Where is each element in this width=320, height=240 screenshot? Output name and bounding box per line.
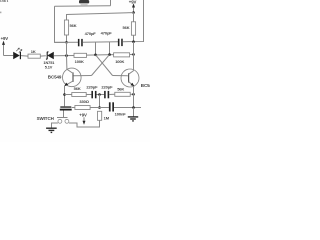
node junction dot (64.5,94.5) bbox=[63, 93, 66, 96]
cut-off text top-left corner bbox=[0, 0, 9, 3]
wire emitter dot to 56K-L bbox=[65, 94, 72, 96]
transistor Q1 BC549 (left) bbox=[63, 56, 82, 87]
wire y=42.5 from C2 to right corner, up right rail to top edge bbox=[123, 0, 144, 42]
svg-text:220pF: 220pF bbox=[86, 85, 98, 90]
capacitor C5 electrolytic (below Q1 emitter) bbox=[60, 106, 72, 110]
svg-text:1M: 1M bbox=[104, 115, 110, 120]
wire 100K-L to 100K-R along y=54.5 bbox=[87, 54, 114, 57]
label 330ohm bbox=[79, 99, 89, 104]
label BC549 for Q1 bbox=[48, 74, 62, 79]
svg-text:1.5K 1: 1.5K 1 bbox=[0, 0, 9, 3]
wire C3 to C4 through node bbox=[97, 94, 105, 96]
label 56K for R1 bbox=[70, 23, 77, 28]
+9V supply left arrow bbox=[2, 41, 5, 56]
wire riser x=99.5 from (99.5,94.5) to (99.5,107.5) bbox=[99, 95, 101, 108]
node junction dot (66.5,55.5) bbox=[65, 54, 68, 57]
zener diode 1N751 5.1V bbox=[46, 52, 54, 60]
svg-text:56K: 56K bbox=[70, 23, 77, 28]
cut-off tiny mark left edge bbox=[0, 12, 1, 14]
wire 1M bottom lead and bottom wire to switch bbox=[69, 120, 100, 127]
wire LED branch from arrow to LED bbox=[4, 55, 14, 57]
+9V supply bottom label text bbox=[79, 113, 87, 118]
wire supply rail y=13.5 from R1 top to +9V dot bbox=[67, 13, 134, 20]
label 1K bbox=[31, 49, 36, 54]
label 1M bbox=[104, 115, 110, 120]
wire cross-coupling diagonal A (95.5,54.5)-(112.5,76.5) bbox=[96, 55, 113, 76]
svg-text:100K: 100K bbox=[75, 59, 84, 64]
label 56K emitter-right bbox=[117, 86, 124, 91]
wire R2 top lead bbox=[133, 13, 135, 22]
wire 330R to dot (99.5,107.5) bbox=[90, 107, 99, 109]
label 56K for R2 bbox=[123, 25, 130, 30]
label 220pF for C4 bbox=[101, 85, 113, 90]
label 56K emitter-left bbox=[74, 86, 81, 91]
wire riser1 x=95.5 from y42.5 to y54.5 bbox=[95, 42, 97, 55]
label 100K right bbox=[115, 59, 124, 64]
node junction dot (66.5,42.5) bbox=[65, 41, 68, 44]
cut-off component top-center (dark blob) bbox=[79, 0, 89, 5]
node junction dot (133.5,107.5) bbox=[132, 106, 135, 109]
resistor 100K right bbox=[114, 53, 130, 57]
label 100K left bbox=[75, 59, 84, 64]
wire riser2 x=109.5 from y42.5 to y54.5 bbox=[109, 42, 111, 55]
wire 100nF to rail dot (133.5,107.5) and stub beyond bbox=[114, 107, 141, 109]
+9V supply bottom arrow (pointing down) bbox=[83, 117, 86, 125]
LED light arrows bbox=[16, 48, 22, 53]
wire 100K-R to rail dot (133.5,54.5) bbox=[130, 53, 134, 55]
wire switch left lead to ground bbox=[52, 123, 58, 128]
switch SW1 bbox=[57, 118, 69, 124]
LED D1 bbox=[13, 52, 21, 59]
node junction dot (133.5,54.5) bbox=[132, 53, 135, 56]
wire LED to 1K bbox=[21, 55, 28, 58]
wire riser x=110.5 cut at top edge bbox=[110, 0, 112, 6]
svg-text:SWITCH: SWITCH bbox=[37, 116, 54, 121]
svg-text:220pF: 220pF bbox=[101, 85, 113, 90]
node junction dot (133.5,42.5) bbox=[132, 40, 135, 43]
resistor 56K right (emitter row) bbox=[115, 92, 130, 96]
node junction dot (99.5,94.5) bbox=[98, 93, 101, 96]
transistor Q2 BC549 (right) bbox=[121, 69, 139, 87]
svg-text:56K: 56K bbox=[74, 86, 81, 91]
ground left bbox=[46, 128, 57, 132]
wire top horizontal from x=54.5 to riser x=110 bbox=[55, 5, 111, 8]
capacitor C1 470pF bbox=[78, 39, 83, 46]
wire C5 bottom to switch lever bbox=[63, 111, 65, 118]
label 470pF for C1 bbox=[85, 31, 97, 36]
node junction dot (133.5,94.5) bbox=[132, 93, 135, 96]
wire base lead Q2 (from diagonal A to base bar) bbox=[113, 75, 129, 77]
label SWITCH bbox=[37, 116, 54, 121]
svg-text:+9V: +9V bbox=[129, 0, 137, 4]
node junction dot (109.5,54.5) bbox=[108, 53, 111, 56]
svg-text:100K: 100K bbox=[115, 59, 124, 64]
capacitor C3 220pF bbox=[91, 91, 96, 98]
wire R2 bottom lead bbox=[133, 35, 135, 41]
svg-text:56K: 56K bbox=[123, 25, 130, 30]
wire Q2 emitter rail x=133.5 down to y=107.5 bbox=[133, 86, 135, 108]
label 100nF bbox=[115, 111, 127, 116]
resistor R2 56K (top right) bbox=[131, 22, 135, 35]
wire R1 bottom lead bbox=[66, 35, 68, 42]
resistor 56K left (emitter row) bbox=[72, 93, 86, 97]
capacitor C4 220pF bbox=[104, 91, 109, 98]
+9V supply top-right label bbox=[129, 0, 137, 4]
label BC549 for Q2 bbox=[141, 83, 155, 88]
svg-text:470pF: 470pF bbox=[101, 31, 113, 36]
resistor 1M (vertical) bbox=[98, 111, 102, 120]
wire Q1 emitter rail x=64.5 down bbox=[64, 86, 66, 107]
label 220pF for C3 bbox=[86, 85, 98, 90]
wire 56K-R to rail dot (133.5,94.5) bbox=[130, 93, 133, 95]
capacitor 100nF bbox=[109, 102, 114, 111]
svg-text:1K: 1K bbox=[31, 49, 36, 54]
wire 56K-L to C3 bbox=[86, 94, 91, 96]
resistor R1 56K (top left) bbox=[64, 20, 68, 35]
resistor 1K bbox=[28, 54, 40, 58]
wire ground lead right x=133.5 bbox=[133, 108, 135, 117]
svg-text:56K: 56K bbox=[117, 86, 124, 91]
+9V supply top-right arrow bbox=[132, 3, 135, 12]
wire 1K to zener bbox=[40, 55, 46, 57]
svg-text:+9V: +9V bbox=[1, 36, 9, 41]
wire base lead Q1 (from diagonal B to base bar) bbox=[73, 75, 92, 77]
svg-text:5.1V: 5.1V bbox=[45, 64, 53, 69]
+9V supply left label bbox=[1, 36, 9, 41]
wire zener to 100K-L through node (66.5,55.5) bbox=[54, 55, 74, 57]
capacitor C2 470pF bbox=[118, 39, 123, 46]
resistor 330R bbox=[75, 106, 90, 110]
resistor 100K left bbox=[74, 53, 87, 57]
svg-text:+9V: +9V bbox=[79, 113, 87, 118]
wire rail-R x=133.5 from (133.5,42.5) down to Q2 collector bbox=[133, 42, 135, 70]
svg-text:330Ω: 330Ω bbox=[79, 99, 89, 104]
node junction dot at +9V rail (133.5,12.5) bbox=[132, 11, 135, 14]
wire left drop x=54.5 from top wire down to node row y=42 bbox=[55, 6, 67, 42]
node junction dot (95.5,54.5) bbox=[94, 54, 97, 57]
svg-text:BC549: BC549 bbox=[48, 74, 62, 79]
wire rail-L x=66.5 from (66.5,42.5) to (66.5,55.5) bbox=[66, 42, 68, 55]
svg-text:100nF: 100nF bbox=[115, 111, 127, 116]
svg-text:470pF: 470pF bbox=[85, 31, 97, 36]
label 470pF for C2 bbox=[101, 31, 113, 36]
node junction dot (99.5,107.5) bbox=[98, 106, 101, 109]
wire cross-coupling diagonal B (109.5,54.5)-(91.5,76.5) bbox=[92, 55, 110, 76]
svg-text:BC549: BC549 bbox=[141, 83, 150, 88]
wire stub C5 bottom to 330R bbox=[72, 107, 75, 109]
wire y=42.5 between C1 and C2 bbox=[83, 41, 118, 43]
wire node row y=42.5 from drop to C1 bbox=[55, 41, 79, 43]
ground right bbox=[128, 117, 138, 121]
labels 1N751 5.1V for zener bbox=[43, 60, 55, 69]
wire dot to 100nF bbox=[100, 107, 109, 109]
wire C4 to 56K-R bbox=[109, 93, 115, 95]
